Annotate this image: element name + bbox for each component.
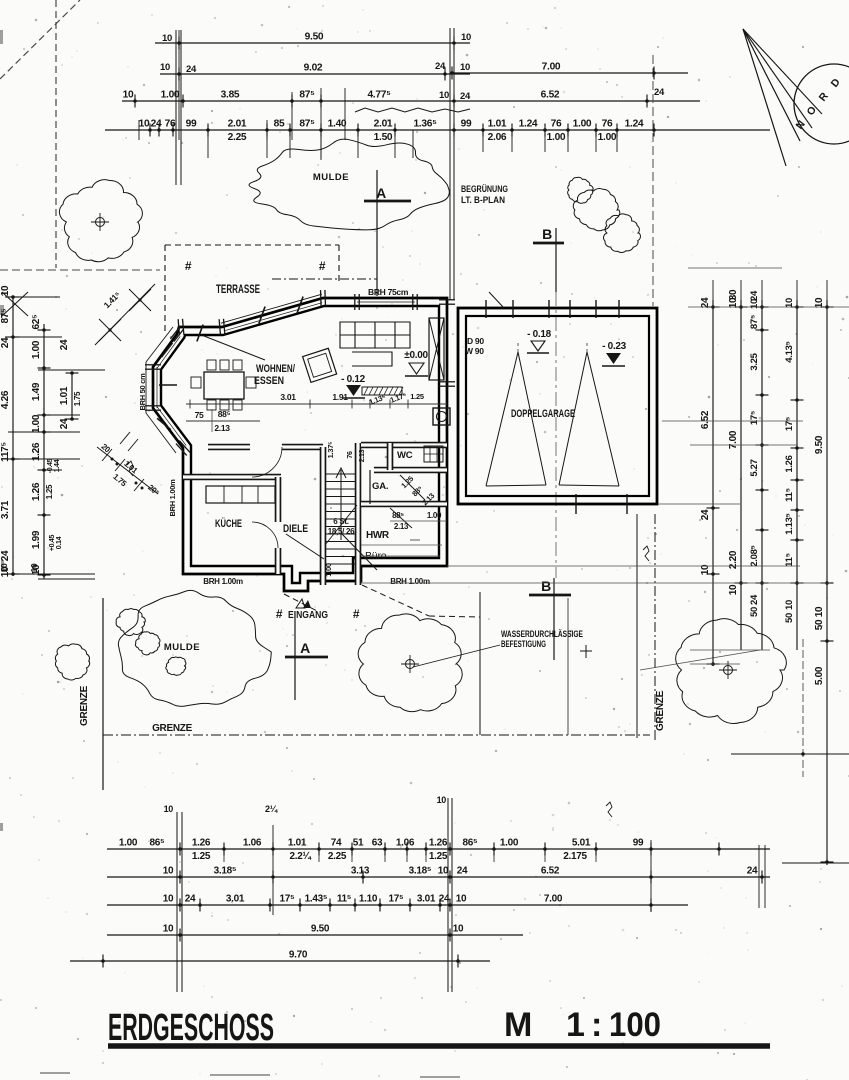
svg-text:1.00: 1.00 xyxy=(500,838,519,849)
svg-text:6.52: 6.52 xyxy=(700,410,711,429)
leader cross mark xyxy=(585,645,587,658)
svg-text:1.24: 1.24 xyxy=(625,119,644,130)
svg-text:2¼: 2¼ xyxy=(265,804,279,814)
interior wall wc north xyxy=(361,442,447,449)
stair cut diagonal xyxy=(325,505,357,545)
svg-text:24: 24 xyxy=(186,64,197,75)
right dim column 6.52 xyxy=(712,300,714,666)
svg-text:24: 24 xyxy=(747,866,758,877)
terrace dashed outline xyxy=(165,244,339,246)
svg-text:99: 99 xyxy=(461,119,472,130)
svg-text:1.01: 1.01 xyxy=(288,838,307,849)
svg-text:87⁵: 87⁵ xyxy=(749,315,760,329)
svg-text:10: 10 xyxy=(162,33,172,44)
svg-text:2.08⁵: 2.08⁵ xyxy=(749,545,760,566)
svg-text:24: 24 xyxy=(700,297,711,308)
bottom grid vertical right pair 762 xyxy=(758,845,760,908)
left diag dims 20 1.01 1.75 20.5 xyxy=(97,447,158,494)
left dim horizontal ticks xyxy=(5,296,60,298)
svg-text:1.17⁵: 1.17⁵ xyxy=(389,390,408,404)
bottom dim row 4 9.50 xyxy=(107,934,523,936)
svg-text:1.75: 1.75 xyxy=(111,472,128,489)
bottom grid vertical 180 double xyxy=(176,812,178,992)
svg-text:11⁵: 11⁵ xyxy=(784,488,795,502)
stair shaft west wall xyxy=(320,447,327,585)
svg-text:10: 10 xyxy=(0,563,9,572)
interior wall wc west xyxy=(387,443,394,470)
svg-text:1.25: 1.25 xyxy=(410,392,424,401)
bottom dim row 5 9.70 xyxy=(70,960,490,962)
entrance walkway dashed xyxy=(362,585,429,616)
svg-text:2.25: 2.25 xyxy=(228,132,247,143)
svg-text:9.02: 9.02 xyxy=(304,63,323,74)
svg-text:1: 1 xyxy=(566,1006,585,1044)
svg-text:1.01: 1.01 xyxy=(59,386,70,405)
svg-text:3.25: 3.25 xyxy=(749,352,760,370)
svg-text:3.18⁵: 3.18⁵ xyxy=(409,866,432,877)
svg-text:ESSEN: ESSEN xyxy=(254,375,284,387)
svg-text:1.00: 1.00 xyxy=(427,511,442,520)
svg-text:2.06: 2.06 xyxy=(488,132,507,143)
svg-text:EINGANG: EINGANG xyxy=(288,609,328,621)
bay window glazing lines xyxy=(156,406,186,446)
stair up arrow xyxy=(340,470,342,540)
svg-text:-0.45: -0.45 xyxy=(47,458,54,473)
squiggle line under 4.77.5 xyxy=(355,108,470,112)
svg-text:99: 99 xyxy=(633,838,644,849)
site boundary vertical top-left xyxy=(55,0,57,268)
svg-text:- 0.12: - 0.12 xyxy=(341,374,366,385)
svg-text:1.24: 1.24 xyxy=(519,119,538,130)
kitchen counter xyxy=(206,486,275,503)
svg-text:1.26: 1.26 xyxy=(429,838,448,849)
section line B through garage xyxy=(555,292,557,578)
svg-text:76: 76 xyxy=(551,119,562,130)
garage triangle apex dashes xyxy=(517,340,519,352)
svg-text:51: 51 xyxy=(353,838,364,849)
garage corner diagonal xyxy=(489,292,504,308)
bush far left xyxy=(55,644,89,680)
svg-text:10: 10 xyxy=(453,924,464,935)
svg-text:10: 10 xyxy=(728,584,739,595)
stair shaft east wall xyxy=(355,443,362,585)
title underline thick xyxy=(108,1043,770,1049)
bay outer sill lines xyxy=(146,327,176,453)
svg-text:BEGRÜNUNG: BEGRÜNUNG xyxy=(461,184,508,194)
svg-text:10: 10 xyxy=(456,894,467,905)
svg-text:A: A xyxy=(300,640,310,656)
svg-text:B: B xyxy=(542,226,552,242)
svg-text:4.13⁵: 4.13⁵ xyxy=(784,341,795,362)
bottom dim row 2 xyxy=(107,876,770,878)
svg-text:75: 75 xyxy=(195,410,204,420)
svg-text:#: # xyxy=(319,259,326,273)
svg-text:BRH 1.00m: BRH 1.00m xyxy=(168,479,177,517)
stair treads xyxy=(326,473,356,475)
svg-text:2.13: 2.13 xyxy=(359,449,366,462)
dining chairs bottom xyxy=(207,400,216,410)
svg-text:24: 24 xyxy=(457,866,468,877)
svg-text:1.00: 1.00 xyxy=(31,340,42,359)
svg-text:50: 50 xyxy=(784,613,795,623)
svg-text:±0.00: ±0.00 xyxy=(404,350,428,361)
right dim top riser ticks xyxy=(712,280,714,310)
svg-text:3.01: 3.01 xyxy=(226,894,245,905)
bushes left-middle xyxy=(116,609,145,636)
sofa group xyxy=(340,322,410,366)
bush top-right pair xyxy=(573,189,620,231)
svg-text:76: 76 xyxy=(347,451,354,459)
svg-text:1.50: 1.50 xyxy=(374,132,393,143)
top grid vertical 453 double xyxy=(449,28,451,300)
svg-text:88⁵: 88⁵ xyxy=(410,484,425,499)
left dim column 1 xyxy=(12,297,14,576)
svg-text:N: N xyxy=(794,119,808,132)
top MULDE outline xyxy=(249,139,449,230)
door swing kitchen xyxy=(286,534,324,559)
north compass arrow xyxy=(743,29,849,166)
north diagonal wall glazing line xyxy=(225,303,322,331)
svg-text:GA.: GA. xyxy=(372,481,388,492)
svg-text:11⁵: 11⁵ xyxy=(784,553,795,567)
svg-text:WOHNEN/: WOHNEN/ xyxy=(256,363,295,375)
svg-text:86⁵: 86⁵ xyxy=(150,838,166,849)
svg-text:24: 24 xyxy=(185,894,196,905)
svg-text:50: 50 xyxy=(814,619,825,630)
svg-text:1.41⁵: 1.41⁵ xyxy=(102,289,123,310)
svg-text:LT. B-PLAN: LT. B-PLAN xyxy=(461,195,505,205)
svg-text:GRENZE: GRENZE xyxy=(152,723,193,734)
svg-text:1.40: 1.40 xyxy=(328,119,347,130)
svg-text:3.85: 3.85 xyxy=(221,90,240,101)
svg-text:5.27: 5.27 xyxy=(749,459,760,476)
interior wall kitchen east xyxy=(275,477,282,522)
svg-text:24: 24 xyxy=(0,337,11,348)
right dim column 9.50 5.00 xyxy=(826,300,828,865)
svg-text:85: 85 xyxy=(274,119,285,130)
svg-text:1.00: 1.00 xyxy=(573,119,592,130)
svg-text:11⁵: 11⁵ xyxy=(337,894,352,905)
svg-text:4.26: 4.26 xyxy=(0,390,11,409)
svg-text:BEFESTIGUNG: BEFESTIGUNG xyxy=(501,639,546,649)
svg-text:3.01: 3.01 xyxy=(417,894,436,905)
top dim row D chain xyxy=(105,129,770,131)
svg-text:1.26: 1.26 xyxy=(31,482,42,501)
svg-text:5.01: 5.01 xyxy=(572,838,591,849)
site boundary horizontal left xyxy=(0,269,160,271)
interior wall hwr north xyxy=(361,501,447,508)
svg-text:2.175: 2.175 xyxy=(563,851,587,862)
left small cross top xyxy=(2,292,28,316)
garage bottom wall tick xyxy=(626,494,628,514)
svg-text:D: D xyxy=(829,76,843,90)
bottom hanging ticks xyxy=(223,849,225,862)
svg-text:1.75: 1.75 xyxy=(73,391,82,406)
interior wall kitchen north xyxy=(183,474,281,481)
svg-text:17⁵: 17⁵ xyxy=(749,411,760,425)
terrain squiggle mark left xyxy=(127,461,133,476)
tree bottom-middle xyxy=(358,614,462,712)
svg-text:1.25: 1.25 xyxy=(192,851,211,862)
svg-text:BRH 1.00m: BRH 1.00m xyxy=(390,577,430,586)
site boundary right vertical solid xyxy=(636,514,638,738)
svg-text:B: B xyxy=(541,578,551,594)
svg-text:WASSERDURCHLÄSSIGE: WASSERDURCHLÄSSIGE xyxy=(501,629,583,639)
svg-text:1.00: 1.00 xyxy=(31,414,42,433)
svg-text:1.13⁵: 1.13⁵ xyxy=(784,513,795,534)
svg-text:100: 100 xyxy=(609,1006,661,1044)
svg-text:24: 24 xyxy=(460,91,471,102)
svg-text:74: 74 xyxy=(331,838,342,849)
section marker A bottom xyxy=(294,618,296,700)
svg-text:6 St.: 6 St. xyxy=(333,517,348,526)
tall window with X right wall xyxy=(429,318,444,380)
svg-text:1.10: 1.10 xyxy=(359,894,378,905)
svg-text:3.18⁵: 3.18⁵ xyxy=(214,866,237,877)
svg-text:#: # xyxy=(353,607,360,621)
top grid vertical 179 double xyxy=(175,30,177,185)
svg-text:76: 76 xyxy=(165,119,176,130)
svg-text:A: A xyxy=(376,185,386,201)
svg-text:1.25: 1.25 xyxy=(429,851,448,862)
house exterior wall outline xyxy=(153,298,447,591)
door swing diele xyxy=(341,533,377,570)
interior dim line living 3.01 xyxy=(186,403,447,405)
section marker A top xyxy=(376,170,378,296)
svg-text:TERRASSE: TERRASSE xyxy=(216,284,260,296)
top dim riser ticks above rows xyxy=(178,30,180,140)
svg-text:20: 20 xyxy=(100,442,113,455)
svg-text:2.01: 2.01 xyxy=(228,119,247,130)
svg-text::: : xyxy=(591,1006,602,1044)
svg-text:1.26: 1.26 xyxy=(192,838,211,849)
right boundary tick bottom xyxy=(731,753,849,755)
svg-text:86⁵: 86⁵ xyxy=(463,838,479,849)
svg-text:7.00: 7.00 xyxy=(544,894,563,905)
svg-text:WC: WC xyxy=(397,450,413,461)
bottom dim row 1 chain xyxy=(107,848,770,850)
svg-text:7.00: 7.00 xyxy=(542,62,561,73)
svg-text:GRENZE: GRENZE xyxy=(655,690,666,731)
svg-text:R: R xyxy=(817,90,831,104)
svg-text:24: 24 xyxy=(59,339,70,350)
garage top wall ticks xyxy=(485,300,487,318)
door swing ga xyxy=(400,475,425,500)
svg-text:24: 24 xyxy=(151,119,162,130)
right dim column chain 4.13.5 xyxy=(796,300,798,650)
svg-text:MULDE: MULDE xyxy=(313,172,349,183)
svg-text:#: # xyxy=(276,607,283,621)
svg-text:W 90: W 90 xyxy=(465,346,484,356)
svg-text:24: 24 xyxy=(435,61,446,72)
bottom grid vertical 273 xyxy=(272,825,274,915)
left dim column 2 xyxy=(43,324,45,579)
dining chairs top xyxy=(207,360,216,370)
svg-text:1.00: 1.00 xyxy=(324,563,333,577)
right dim column 7.00 xyxy=(740,300,742,650)
terrace dash-dot mid line xyxy=(272,278,377,280)
svg-text:10: 10 xyxy=(139,119,150,130)
svg-text:3.01: 3.01 xyxy=(280,392,296,402)
svg-text:1.00: 1.00 xyxy=(598,132,617,143)
right dim column chain 3.25 5.27 xyxy=(761,300,763,650)
svg-text:1.99: 1.99 xyxy=(31,530,42,549)
door arc kitchen xyxy=(252,522,278,548)
top dim row 9.02 xyxy=(160,73,470,75)
tree bottom-right xyxy=(676,619,787,724)
garage outer wall xyxy=(458,308,657,504)
svg-text:1.91: 1.91 xyxy=(332,392,348,402)
svg-text:10: 10 xyxy=(784,600,795,610)
svg-text:9.50: 9.50 xyxy=(311,924,330,935)
dining chairs sides xyxy=(191,377,201,388)
left diag dim 1.41.5 xyxy=(95,284,155,345)
svg-text:18,5/ 26: 18,5/ 26 xyxy=(328,527,355,536)
section marker B bottom xyxy=(553,578,555,660)
7.00 dim row right xyxy=(450,72,688,74)
svg-text:87⁵: 87⁵ xyxy=(299,119,315,130)
tree top-left xyxy=(59,180,142,262)
dining table xyxy=(204,372,244,399)
svg-text:GRENZE: GRENZE xyxy=(79,685,90,726)
svg-text:17⁵: 17⁵ xyxy=(280,894,296,905)
svg-text:MULDE: MULDE xyxy=(164,642,200,653)
svg-text:O: O xyxy=(804,104,818,118)
door swing hwr diag xyxy=(390,508,412,528)
hwr buero divider dashed xyxy=(361,544,442,546)
svg-text:D 90: D 90 xyxy=(467,336,484,346)
svg-text:10: 10 xyxy=(749,299,760,309)
top dim hanging ticks below row D xyxy=(207,130,209,158)
svg-text:1.43⁵: 1.43⁵ xyxy=(305,894,328,905)
svg-text:1.06: 1.06 xyxy=(243,838,262,849)
svg-text:1.01: 1.01 xyxy=(488,119,507,130)
edge dirt marks xyxy=(0,30,460,1078)
terrain squiggle mark right xyxy=(643,546,649,561)
door arc diele xyxy=(252,447,282,477)
svg-text:6.52: 6.52 xyxy=(541,866,560,877)
svg-text:10: 10 xyxy=(460,62,470,73)
north diagonal wall sill line xyxy=(221,294,322,323)
svg-text:1.36⁵: 1.36⁵ xyxy=(413,119,437,130)
svg-text:63: 63 xyxy=(372,838,383,849)
bottom grid vertical 450 double xyxy=(447,798,449,992)
svg-text:5.00: 5.00 xyxy=(814,666,825,685)
interior wall diele-living xyxy=(208,444,250,451)
svg-text:HWR: HWR xyxy=(366,530,390,541)
svg-text:KÜCHE: KÜCHE xyxy=(215,517,242,530)
svg-text:9.50: 9.50 xyxy=(814,435,825,454)
bottom dim row 3 xyxy=(107,904,688,906)
interior wall ga east xyxy=(369,470,371,504)
top dim row 3.85 / 87.5 / 4.77.5 / 6.52 xyxy=(122,100,700,102)
svg-text:BRH 1.00m: BRH 1.00m xyxy=(203,577,243,586)
svg-text:#: # xyxy=(185,259,192,273)
top grid vertical 653 dashed xyxy=(652,55,654,306)
bottom right short line xyxy=(782,862,849,864)
svg-text:1.25: 1.25 xyxy=(45,484,54,499)
walkway vertical lines below house xyxy=(479,592,481,735)
svg-text:3.71: 3.71 xyxy=(0,500,11,519)
svg-text:99: 99 xyxy=(186,119,197,130)
leader line right tree xyxy=(640,650,760,670)
svg-text:10: 10 xyxy=(160,62,170,73)
site boundary bottom horizontal xyxy=(103,734,650,736)
interior dim line kitchen 75 88.5 xyxy=(186,420,260,422)
svg-text:87⁵: 87⁵ xyxy=(299,90,315,101)
svg-text:17⁵: 17⁵ xyxy=(784,417,795,431)
svg-text:1.00: 1.00 xyxy=(119,838,138,849)
svg-text:10: 10 xyxy=(439,90,449,101)
hwr dim line lower xyxy=(361,555,440,557)
svg-text:1.06: 1.06 xyxy=(396,838,415,849)
svg-text:10: 10 xyxy=(728,297,739,308)
top dim row 9.50 xyxy=(155,42,470,44)
svg-text:- 0.23: - 0.23 xyxy=(602,341,627,352)
svg-text:17⁵: 17⁵ xyxy=(389,894,405,905)
svg-text:+0.45: +0.45 xyxy=(49,534,56,551)
left dim column 3 xyxy=(71,373,73,419)
svg-text:24: 24 xyxy=(654,87,665,98)
radiator hatched band xyxy=(362,387,402,395)
svg-text:1.37⁵: 1.37⁵ xyxy=(326,441,335,458)
svg-text:24: 24 xyxy=(749,594,760,605)
leader line to tree xyxy=(413,645,500,667)
site boundary right dash-dot GRENZE line xyxy=(654,514,656,742)
wall joint ticks bay xyxy=(159,384,177,386)
door swing living terrace xyxy=(199,334,265,360)
svg-text:87⁵: 87⁵ xyxy=(0,308,11,324)
svg-text:1.00: 1.00 xyxy=(161,90,180,101)
svg-text:10: 10 xyxy=(438,866,449,877)
svg-text:50: 50 xyxy=(749,607,760,617)
bottom grid vertical 651 xyxy=(650,840,652,912)
svg-text:10: 10 xyxy=(123,90,134,101)
svg-text:2.25: 2.25 xyxy=(328,851,347,862)
svg-text:10: 10 xyxy=(461,32,471,43)
svg-text:M: M xyxy=(504,1006,532,1044)
site boundary left vertical xyxy=(102,598,104,790)
svg-text:1.49: 1.49 xyxy=(31,382,42,401)
svg-text:62⁵: 62⁵ xyxy=(31,314,42,330)
svg-text:- 0.18: - 0.18 xyxy=(527,329,552,340)
terrain squiggle mark bottom xyxy=(606,802,612,817)
stove square with circle xyxy=(433,408,450,425)
garage door triangle left xyxy=(486,352,546,486)
svg-text:BRH 50 cm: BRH 50 cm xyxy=(138,373,147,411)
svg-text:6.52: 6.52 xyxy=(541,90,560,101)
svg-text:10: 10 xyxy=(163,924,174,935)
svg-text:24: 24 xyxy=(0,550,11,561)
svg-text:BRH 75cm: BRH 75cm xyxy=(368,287,409,297)
svg-text:24: 24 xyxy=(700,509,711,520)
svg-text:1.01: 1.01 xyxy=(122,459,139,476)
svg-text:3.13: 3.13 xyxy=(351,866,370,877)
svg-text:0.14: 0.14 xyxy=(56,536,63,549)
svg-text:20⁵: 20⁵ xyxy=(146,483,161,498)
svg-text:1.26: 1.26 xyxy=(784,455,795,472)
svg-text:24: 24 xyxy=(59,418,70,429)
svg-text:2.2¼: 2.2¼ xyxy=(289,851,311,862)
svg-text:DOPPELGARAGE: DOPPELGARAGE xyxy=(511,408,575,420)
svg-text:10: 10 xyxy=(163,866,174,877)
svg-text:2.01: 2.01 xyxy=(374,119,393,130)
interior wall wc south xyxy=(374,467,447,474)
section marker B top xyxy=(555,228,557,292)
svg-text:2.13: 2.13 xyxy=(214,423,230,433)
svg-text:10: 10 xyxy=(814,297,825,308)
svg-text:10: 10 xyxy=(164,804,174,814)
